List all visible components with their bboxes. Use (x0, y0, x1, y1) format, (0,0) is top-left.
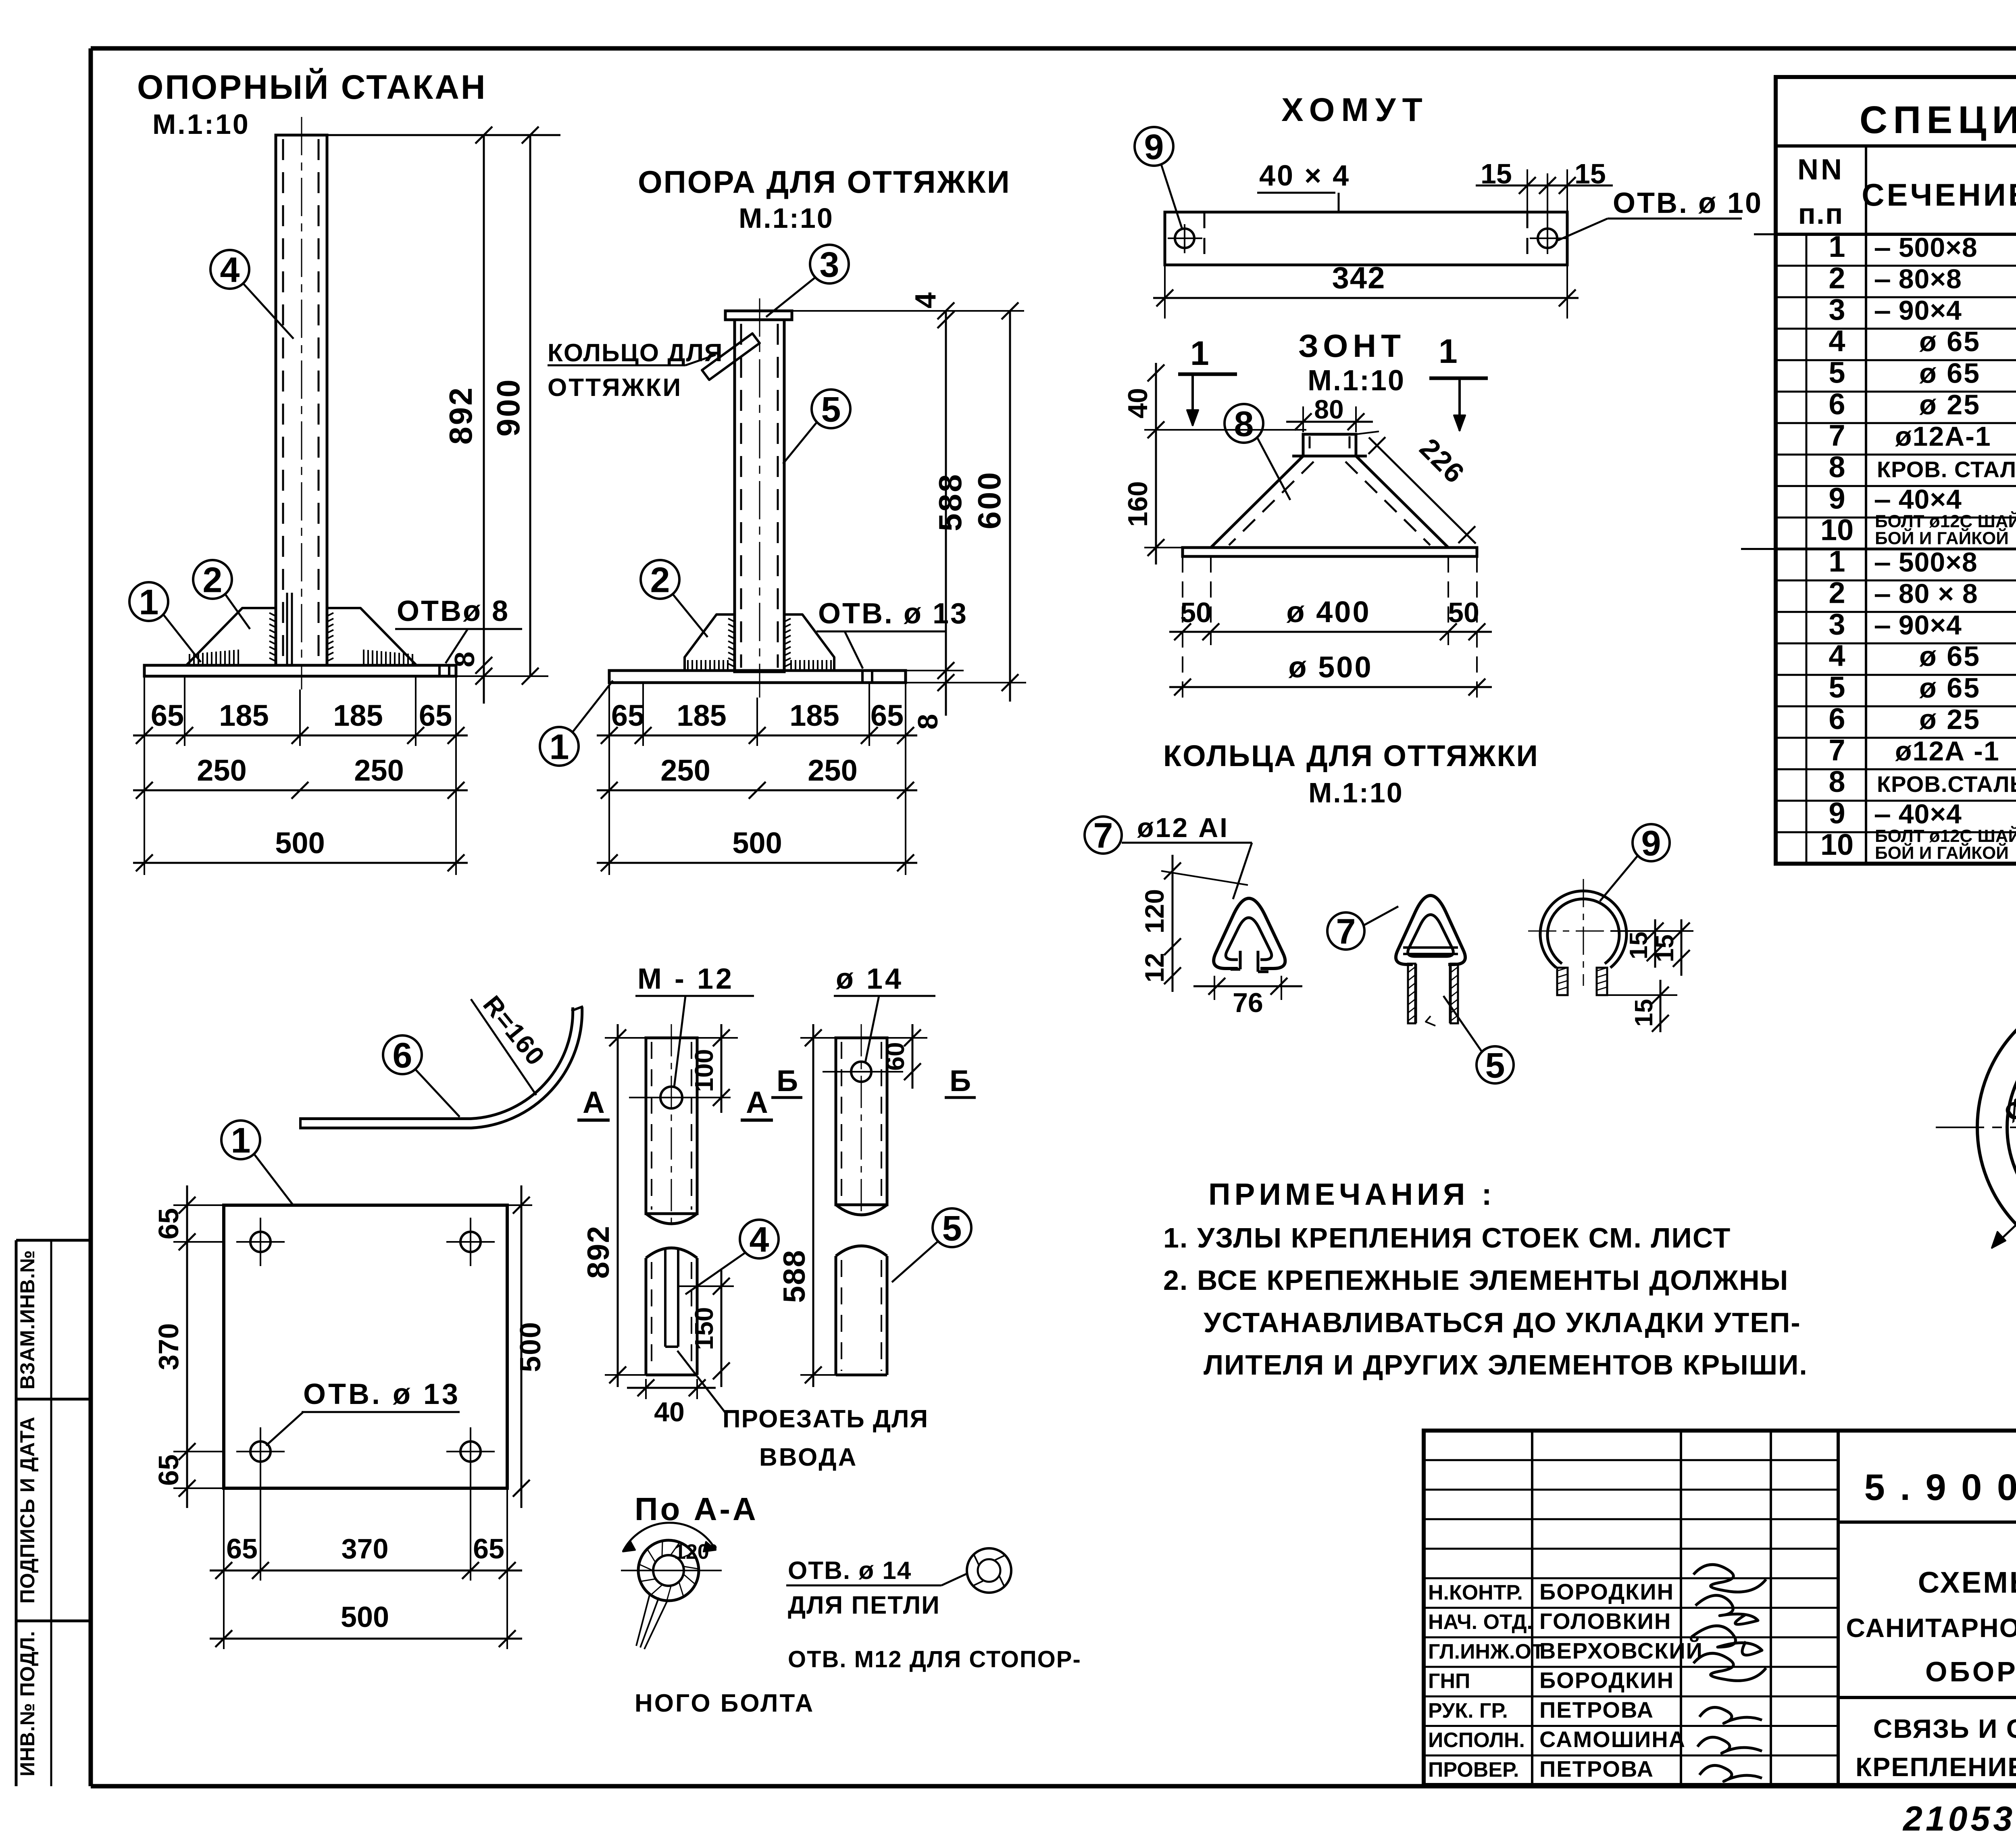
svg-text:8: 8 (1234, 404, 1254, 444)
svg-text:370: 370 (342, 1533, 389, 1564)
svg-text:4: 4 (750, 1220, 769, 1260)
svg-text:ОТВ. ø 14: ОТВ. ø 14 (788, 1557, 912, 1585)
svg-text:ВЕРХОВСКИЙ: ВЕРХОВСКИЙ (1539, 1638, 1703, 1663)
svg-text:‒ 40×4: ‒ 40×4 (1874, 799, 1962, 829)
svg-text:ø 65: ø 65 (1919, 641, 1981, 672)
svg-text:СВЯЗЬ И СИГНАЛИЗАЦИЯ: СВЯЗЬ И СИГНАЛИЗАЦИЯ (1873, 1714, 2016, 1743)
svg-text:1: 1 (550, 727, 569, 767)
svg-text:‒ 80 × 8: ‒ 80 × 8 (1874, 579, 1978, 609)
svg-text:НОГО БОЛТА: НОГО БОЛТА (635, 1689, 814, 1717)
svg-text:ø12А-1: ø12А-1 (1895, 421, 1991, 452)
svg-text:ЗОНТ: ЗОНТ (1298, 328, 1406, 364)
svg-text:‒ 500×8: ‒ 500×8 (1874, 232, 1978, 263)
svg-text:5 . 9 0 0 - 4 - В. 0 - 3: 5 . 9 0 0 - 4 - В. 0 - 3 (1864, 1467, 2016, 1508)
svg-text:1: 1 (1829, 545, 1845, 578)
svg-text:65: 65 (153, 1208, 184, 1239)
svg-text:М.1:10: М.1:10 (1308, 364, 1405, 397)
svg-text:40: 40 (1123, 388, 1153, 419)
svg-text:10: 10 (1820, 513, 1854, 547)
svg-text:500: 500 (275, 826, 325, 860)
svg-text:250: 250 (808, 754, 857, 787)
svg-text:40 × 4: 40 × 4 (1259, 160, 1350, 192)
svg-text:342: 342 (1332, 261, 1386, 295)
svg-text:ВЗАМ.ИНВ.№: ВЗАМ.ИНВ.№ (16, 1250, 39, 1389)
svg-text:А: А (583, 1085, 605, 1120)
svg-text:КОЛЬЦА ДЛЯ ОТТЯЖКИ: КОЛЬЦА ДЛЯ ОТТЯЖКИ (1163, 739, 1539, 773)
svg-text:БОРОДКИН: БОРОДКИН (1539, 1579, 1674, 1604)
svg-text:892: 892 (443, 386, 479, 444)
svg-text:5: 5 (1485, 1046, 1505, 1085)
svg-text:ø 25: ø 25 (1919, 704, 1981, 735)
svg-text:ОТВ. М12 ДЛЯ СТОПОР-: ОТВ. М12 ДЛЯ СТОПОР- (788, 1646, 1081, 1672)
svg-text:2. ВСЕ КРЕПЕЖНЫЕ ЭЛЕМЕНТЫ Д: 2. ВСЕ КРЕПЕЖНЫЕ ЭЛЕМЕНТЫ ДОЛЖНЫ (1163, 1264, 1789, 1296)
svg-text:ø 65: ø 65 (1919, 672, 1981, 704)
svg-text:4: 4 (220, 250, 240, 290)
svg-text:120°: 120° (674, 1540, 718, 1564)
svg-text:10: 10 (1820, 828, 1854, 861)
svg-text:РУК. ГР.: РУК. ГР. (1428, 1699, 1508, 1722)
svg-text:ПОДПИСЬ И ДАТА: ПОДПИСЬ И ДАТА (16, 1416, 39, 1604)
svg-text:588: 588 (777, 1250, 812, 1303)
svg-text:40: 40 (654, 1397, 685, 1427)
svg-text:КРОВ. СТАЛЬ: КРОВ. СТАЛЬ (1877, 456, 2016, 482)
svg-text:ПРИМЕЧАНИЯ :: ПРИМЕЧАНИЯ : (1208, 1177, 1496, 1212)
svg-text:185: 185 (789, 699, 839, 732)
svg-text:ПРОЕЗАТЬ ДЛЯ: ПРОЕЗАТЬ ДЛЯ (723, 1405, 929, 1433)
svg-text:250: 250 (197, 754, 246, 787)
svg-text:М - 12: М - 12 (637, 963, 734, 995)
svg-text:4: 4 (1829, 639, 1845, 673)
svg-text:2: 2 (650, 560, 670, 600)
svg-text:185: 185 (333, 699, 383, 732)
svg-text:15: 15 (1651, 935, 1679, 962)
svg-text:1: 1 (1190, 334, 1209, 372)
svg-text:ГОЛОВКИН: ГОЛОВКИН (1539, 1608, 1671, 1634)
svg-text:185: 185 (677, 699, 726, 732)
svg-text:‒ 90×4: ‒ 90×4 (1874, 295, 1962, 326)
svg-text:12: 12 (1139, 953, 1169, 982)
svg-text:3: 3 (820, 245, 839, 285)
svg-text:185: 185 (219, 699, 269, 732)
svg-text:1. УЗЛЫ КРЕПЛЕНИЯ СТОЕК СМ.: 1. УЗЛЫ КРЕПЛЕНИЯ СТОЕК СМ. ЛИСТ (1163, 1222, 1731, 1254)
svg-text:1: 1 (231, 1121, 251, 1160)
svg-text:50: 50 (1448, 597, 1479, 628)
svg-text:8: 8 (449, 652, 480, 667)
svg-text:ИНВ.№ ПОДЛ.: ИНВ.№ ПОДЛ. (16, 1631, 39, 1776)
svg-text:65: 65 (419, 699, 452, 732)
svg-text:80: 80 (1314, 394, 1343, 424)
svg-text:250: 250 (354, 754, 404, 787)
svg-text:15: 15 (1625, 932, 1653, 960)
svg-text:250: 250 (660, 754, 710, 787)
svg-text:Б: Б (777, 1064, 798, 1098)
svg-text:‒ 90×4: ‒ 90×4 (1874, 610, 1962, 641)
svg-text:9: 9 (1144, 127, 1164, 167)
svg-text:ЛИТЕЛЯ И ДРУГИХ ЭЛЕМЕНТОВ: ЛИТЕЛЯ И ДРУГИХ ЭЛЕМЕНТОВ КРЫШИ. (1204, 1349, 1808, 1381)
svg-text:‒ 500×8: ‒ 500×8 (1874, 547, 1978, 578)
svg-text:6: 6 (1829, 387, 1845, 421)
svg-text:8: 8 (1829, 765, 1845, 798)
svg-text:21053- 03: 21053- 03 (1902, 1800, 2016, 1837)
svg-text:1: 1 (1829, 230, 1845, 263)
svg-text:1: 1 (1439, 332, 1458, 370)
svg-text:600: 600 (971, 471, 1007, 529)
svg-text:65: 65 (473, 1533, 504, 1564)
svg-text:120: 120 (1139, 889, 1169, 933)
svg-text:М.1:10: М.1:10 (1308, 777, 1404, 808)
svg-text:ПЕТРОВА: ПЕТРОВА (1539, 1697, 1654, 1722)
svg-text:СХЕМЫ СИСТЕМ: СХЕМЫ СИСТЕМ (1918, 1566, 2016, 1599)
svg-text:п.п: п.п (1798, 198, 1844, 230)
svg-text:М.1:10: М.1:10 (152, 108, 250, 140)
svg-text:8: 8 (912, 714, 943, 730)
svg-text:СЕЧЕНИЕ: СЕЧЕНИЕ (1862, 177, 2016, 212)
svg-text:ОТТЯЖКИ: ОТТЯЖКИ (548, 374, 682, 402)
svg-text:ХОМУТ: ХОМУТ (1281, 92, 1429, 128)
svg-text:ПРОВЕР.: ПРОВЕР. (1428, 1758, 1519, 1781)
svg-text:9: 9 (1829, 481, 1845, 515)
svg-text:ГНП: ГНП (1428, 1670, 1470, 1693)
svg-text:8: 8 (1829, 450, 1845, 483)
svg-text:БОРОДКИН: БОРОДКИН (1539, 1668, 1674, 1693)
svg-text:САМОШИНА: САМОШИНА (1539, 1727, 1686, 1752)
svg-text:100: 100 (689, 1049, 719, 1092)
svg-text:КОЛЬЦО ДЛЯ: КОЛЬЦО ДЛЯ (548, 339, 723, 367)
svg-text:БОЙ И ГАЙКОЙ: БОЙ И ГАЙКОЙ (1875, 842, 2009, 863)
svg-text:ОТВø 8: ОТВø 8 (397, 595, 510, 627)
svg-text:ГЛ.ИНЖ.ОТ: ГЛ.ИНЖ.ОТ (1428, 1640, 1544, 1663)
svg-text:ø 14: ø 14 (836, 963, 904, 995)
svg-text:СПЕЦИФИКАЦИЯ МЕТАЛЛА: СПЕЦИФИКАЦИЯ МЕТАЛЛА (1860, 98, 2016, 142)
svg-text:ДЛЯ ПЕТЛИ: ДЛЯ ПЕТЛИ (788, 1591, 940, 1619)
svg-text:ОПОРА ДЛЯ ОТТЯЖКИ: ОПОРА ДЛЯ ОТТЯЖКИ (638, 164, 1011, 200)
svg-text:ø 500: ø 500 (1288, 650, 1372, 684)
svg-text:60: 60 (881, 1042, 910, 1071)
svg-text:4: 4 (1829, 324, 1845, 358)
svg-text:3: 3 (1829, 608, 1845, 641)
svg-text:ø 65: ø 65 (1919, 357, 1981, 389)
svg-text:НАЧ. ОТД.: НАЧ. ОТД. (1428, 1610, 1533, 1634)
svg-text:500: 500 (732, 826, 782, 860)
svg-text:50: 50 (1180, 597, 1212, 628)
svg-text:М.1:10: М.1:10 (739, 202, 834, 234)
svg-text:6: 6 (1829, 702, 1845, 735)
svg-text:7: 7 (1093, 816, 1113, 856)
svg-text:ИСПОЛН.: ИСПОЛН. (1428, 1729, 1525, 1752)
svg-text:5: 5 (942, 1208, 962, 1248)
svg-text:7: 7 (1829, 419, 1845, 452)
svg-text:ø 25: ø 25 (1919, 389, 1981, 420)
svg-text:76: 76 (1233, 987, 1263, 1018)
svg-text:15: 15 (1630, 999, 1658, 1027)
svg-text:ВВОДА: ВВОДА (759, 1443, 858, 1471)
svg-text:9: 9 (1641, 823, 1661, 863)
svg-text:САНИТАРНО - ТЕХНИЧЕСКОГО: САНИТАРНО - ТЕХНИЧЕСКОГО (1846, 1613, 2016, 1643)
svg-text:5: 5 (1829, 671, 1845, 704)
svg-text:500: 500 (514, 1321, 547, 1372)
svg-text:‒ 80×8: ‒ 80×8 (1874, 264, 1962, 294)
svg-text:ø 400: ø 400 (1286, 595, 1370, 629)
svg-text:150: 150 (689, 1307, 719, 1350)
svg-text:500: 500 (341, 1601, 389, 1633)
svg-text:5: 5 (821, 389, 841, 429)
svg-text:ОТВ. ø 10: ОТВ. ø 10 (1613, 187, 1763, 219)
svg-text:7: 7 (1829, 733, 1845, 767)
svg-text:‒ 40×4: ‒ 40×4 (1874, 484, 1962, 514)
svg-text:ПЕТРОВА: ПЕТРОВА (1539, 1756, 1654, 1781)
svg-text:КРОВ.СТАЛЬ: КРОВ.СТАЛЬ (1877, 771, 2016, 797)
svg-text:ø 65: ø 65 (1919, 326, 1981, 357)
svg-text:65: 65 (871, 699, 904, 732)
svg-text:УСТАНАВЛИВАТЬСЯ ДО УКЛАДКИ: УСТАНАВЛИВАТЬСЯ ДО УКЛАДКИ УТЕП- (1204, 1307, 1801, 1338)
svg-text:NN: NN (1797, 154, 1844, 186)
svg-text:370: 370 (153, 1323, 184, 1370)
svg-text:5: 5 (1829, 356, 1845, 389)
svg-text:1: 1 (139, 582, 159, 622)
svg-text:2: 2 (203, 560, 223, 600)
svg-text:По А-А: По А-А (635, 1491, 758, 1527)
svg-text:ОТВ. ø 13: ОТВ. ø 13 (303, 1378, 460, 1410)
svg-text:ø12 АI: ø12 АI (1137, 812, 1229, 843)
svg-text:160: 160 (1123, 481, 1153, 527)
svg-text:ОБОРУДОВАНИЯ: ОБОРУДОВАНИЯ (1925, 1656, 2016, 1687)
svg-text:Н.КОНТР.: Н.КОНТР. (1428, 1581, 1523, 1604)
svg-text:КРЕПЛЕНИЕ СТОЕК. ДЕТАЛИ: КРЕПЛЕНИЕ СТОЕК. ДЕТАЛИ (1856, 1752, 2016, 1782)
svg-text:ø12А -1: ø12А -1 (1895, 736, 2000, 766)
svg-text:А: А (746, 1085, 768, 1120)
svg-text:7: 7 (1336, 912, 1356, 952)
svg-text:892: 892 (581, 1225, 616, 1279)
svg-text:4: 4 (910, 292, 942, 308)
svg-text:3: 3 (1829, 293, 1845, 326)
svg-text:БОЙ И ГАЙКОЙ: БОЙ И ГАЙКОЙ (1875, 528, 2009, 548)
svg-text:6: 6 (393, 1035, 412, 1075)
svg-text:900: 900 (490, 378, 526, 436)
svg-text:2: 2 (1829, 261, 1845, 295)
svg-text:ОПОРНЫЙ СТАКАН: ОПОРНЫЙ СТАКАН (137, 68, 487, 106)
svg-text:2: 2 (1829, 576, 1845, 610)
svg-text:588: 588 (932, 473, 968, 531)
svg-text:65: 65 (151, 699, 184, 732)
svg-text:Б: Б (950, 1064, 971, 1098)
svg-text:65: 65 (153, 1454, 184, 1486)
svg-text:9: 9 (1829, 796, 1845, 830)
svg-text:65: 65 (611, 699, 644, 732)
svg-text:65: 65 (226, 1533, 258, 1564)
